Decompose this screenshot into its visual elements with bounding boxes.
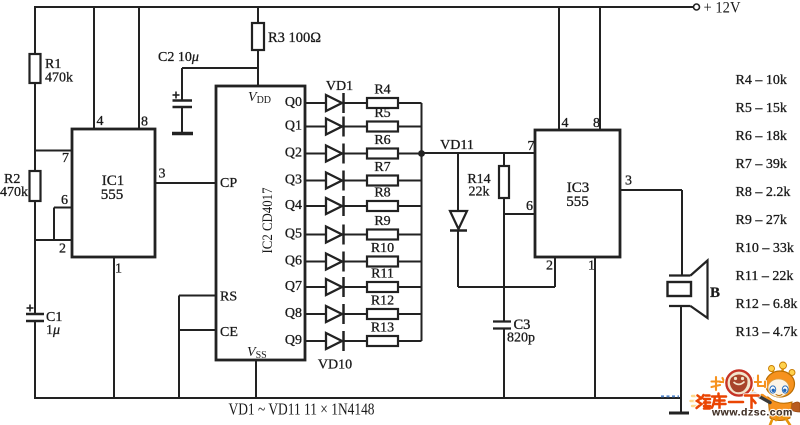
svg-text:4: 4 bbox=[562, 116, 569, 131]
svg-text:Q9: Q9 bbox=[285, 333, 302, 348]
svg-text:IC2 CD4017: IC2 CD4017 bbox=[260, 187, 276, 253]
svg-text:555: 555 bbox=[566, 194, 589, 210]
svg-text:Q7: Q7 bbox=[285, 279, 302, 294]
svg-text:CE: CE bbox=[220, 325, 238, 340]
svg-text:R13: R13 bbox=[371, 321, 394, 336]
svg-text:VD1 ~ VD11 11 × 1N4148: VD1 ~ VD11 11 × 1N4148 bbox=[229, 400, 375, 419]
svg-text:6: 6 bbox=[61, 193, 68, 208]
svg-text:CP: CP bbox=[220, 176, 237, 191]
svg-text:Q4: Q4 bbox=[285, 198, 302, 213]
svg-text:R12: R12 bbox=[371, 294, 394, 309]
svg-text:R5: R5 bbox=[374, 106, 390, 121]
svg-text:R8 – 2.2k: R8 – 2.2k bbox=[736, 185, 791, 200]
svg-text:R6: R6 bbox=[374, 133, 390, 148]
svg-text:Q1: Q1 bbox=[285, 119, 302, 134]
svg-text:R8: R8 bbox=[374, 186, 390, 201]
svg-text:R10: R10 bbox=[371, 241, 394, 256]
svg-text:820p: 820p bbox=[507, 331, 535, 346]
svg-text:Q3: Q3 bbox=[285, 173, 302, 188]
svg-text:C2 10μ: C2 10μ bbox=[158, 50, 199, 65]
svg-text:R12 – 6.8k: R12 – 6.8k bbox=[736, 297, 798, 312]
svg-text:VD1: VD1 bbox=[326, 79, 353, 94]
svg-text:R10 – 33k: R10 – 33k bbox=[736, 241, 794, 256]
svg-text:2: 2 bbox=[59, 242, 66, 257]
svg-text:R4: R4 bbox=[374, 83, 390, 98]
svg-text:www.dzsc.com: www.dzsc.com bbox=[711, 407, 793, 419]
svg-text:1: 1 bbox=[115, 262, 122, 277]
svg-text:7: 7 bbox=[62, 151, 69, 166]
svg-text:8: 8 bbox=[141, 115, 148, 130]
svg-text:RS: RS bbox=[220, 290, 237, 305]
svg-text:Q5: Q5 bbox=[285, 227, 302, 242]
svg-text:Q6: Q6 bbox=[285, 254, 302, 269]
svg-text:1μ: 1μ bbox=[46, 323, 60, 338]
svg-text:+ 12V: + 12V bbox=[704, 0, 741, 17]
svg-text:R11 – 22k: R11 – 22k bbox=[736, 269, 794, 284]
svg-text:R11: R11 bbox=[371, 267, 394, 282]
svg-text:VD11: VD11 bbox=[440, 138, 474, 153]
svg-text:6: 6 bbox=[526, 199, 533, 214]
svg-text:B: B bbox=[710, 285, 720, 301]
svg-text:3: 3 bbox=[625, 174, 632, 189]
svg-text:22k: 22k bbox=[469, 185, 490, 200]
svg-text:R7 – 39k: R7 – 39k bbox=[736, 157, 787, 172]
svg-text:R6 – 18k: R6 – 18k bbox=[736, 129, 787, 144]
svg-text:R4 – 10k: R4 – 10k bbox=[736, 73, 787, 88]
svg-text:555: 555 bbox=[101, 187, 124, 203]
svg-text:R3 100Ω: R3 100Ω bbox=[268, 30, 321, 46]
svg-text:7: 7 bbox=[528, 139, 535, 154]
svg-text:R9 – 27k: R9 – 27k bbox=[736, 213, 787, 228]
svg-text:R13 – 4.7k: R13 – 4.7k bbox=[736, 325, 798, 340]
svg-text:VD10: VD10 bbox=[318, 358, 352, 373]
svg-text:470k: 470k bbox=[45, 71, 73, 86]
svg-text:Q8: Q8 bbox=[285, 306, 302, 321]
svg-text:R9: R9 bbox=[374, 214, 390, 229]
svg-text:470k: 470k bbox=[0, 185, 28, 200]
svg-text:2: 2 bbox=[546, 259, 553, 274]
svg-text:R7: R7 bbox=[374, 160, 390, 175]
svg-text:1: 1 bbox=[588, 259, 595, 274]
svg-text:4: 4 bbox=[97, 114, 104, 129]
svg-text:R5 – 15k: R5 – 15k bbox=[736, 101, 787, 116]
svg-text:Q0: Q0 bbox=[285, 95, 302, 110]
svg-text:Q2: Q2 bbox=[285, 146, 302, 161]
svg-text:8: 8 bbox=[593, 116, 600, 131]
svg-text:3: 3 bbox=[159, 167, 166, 182]
